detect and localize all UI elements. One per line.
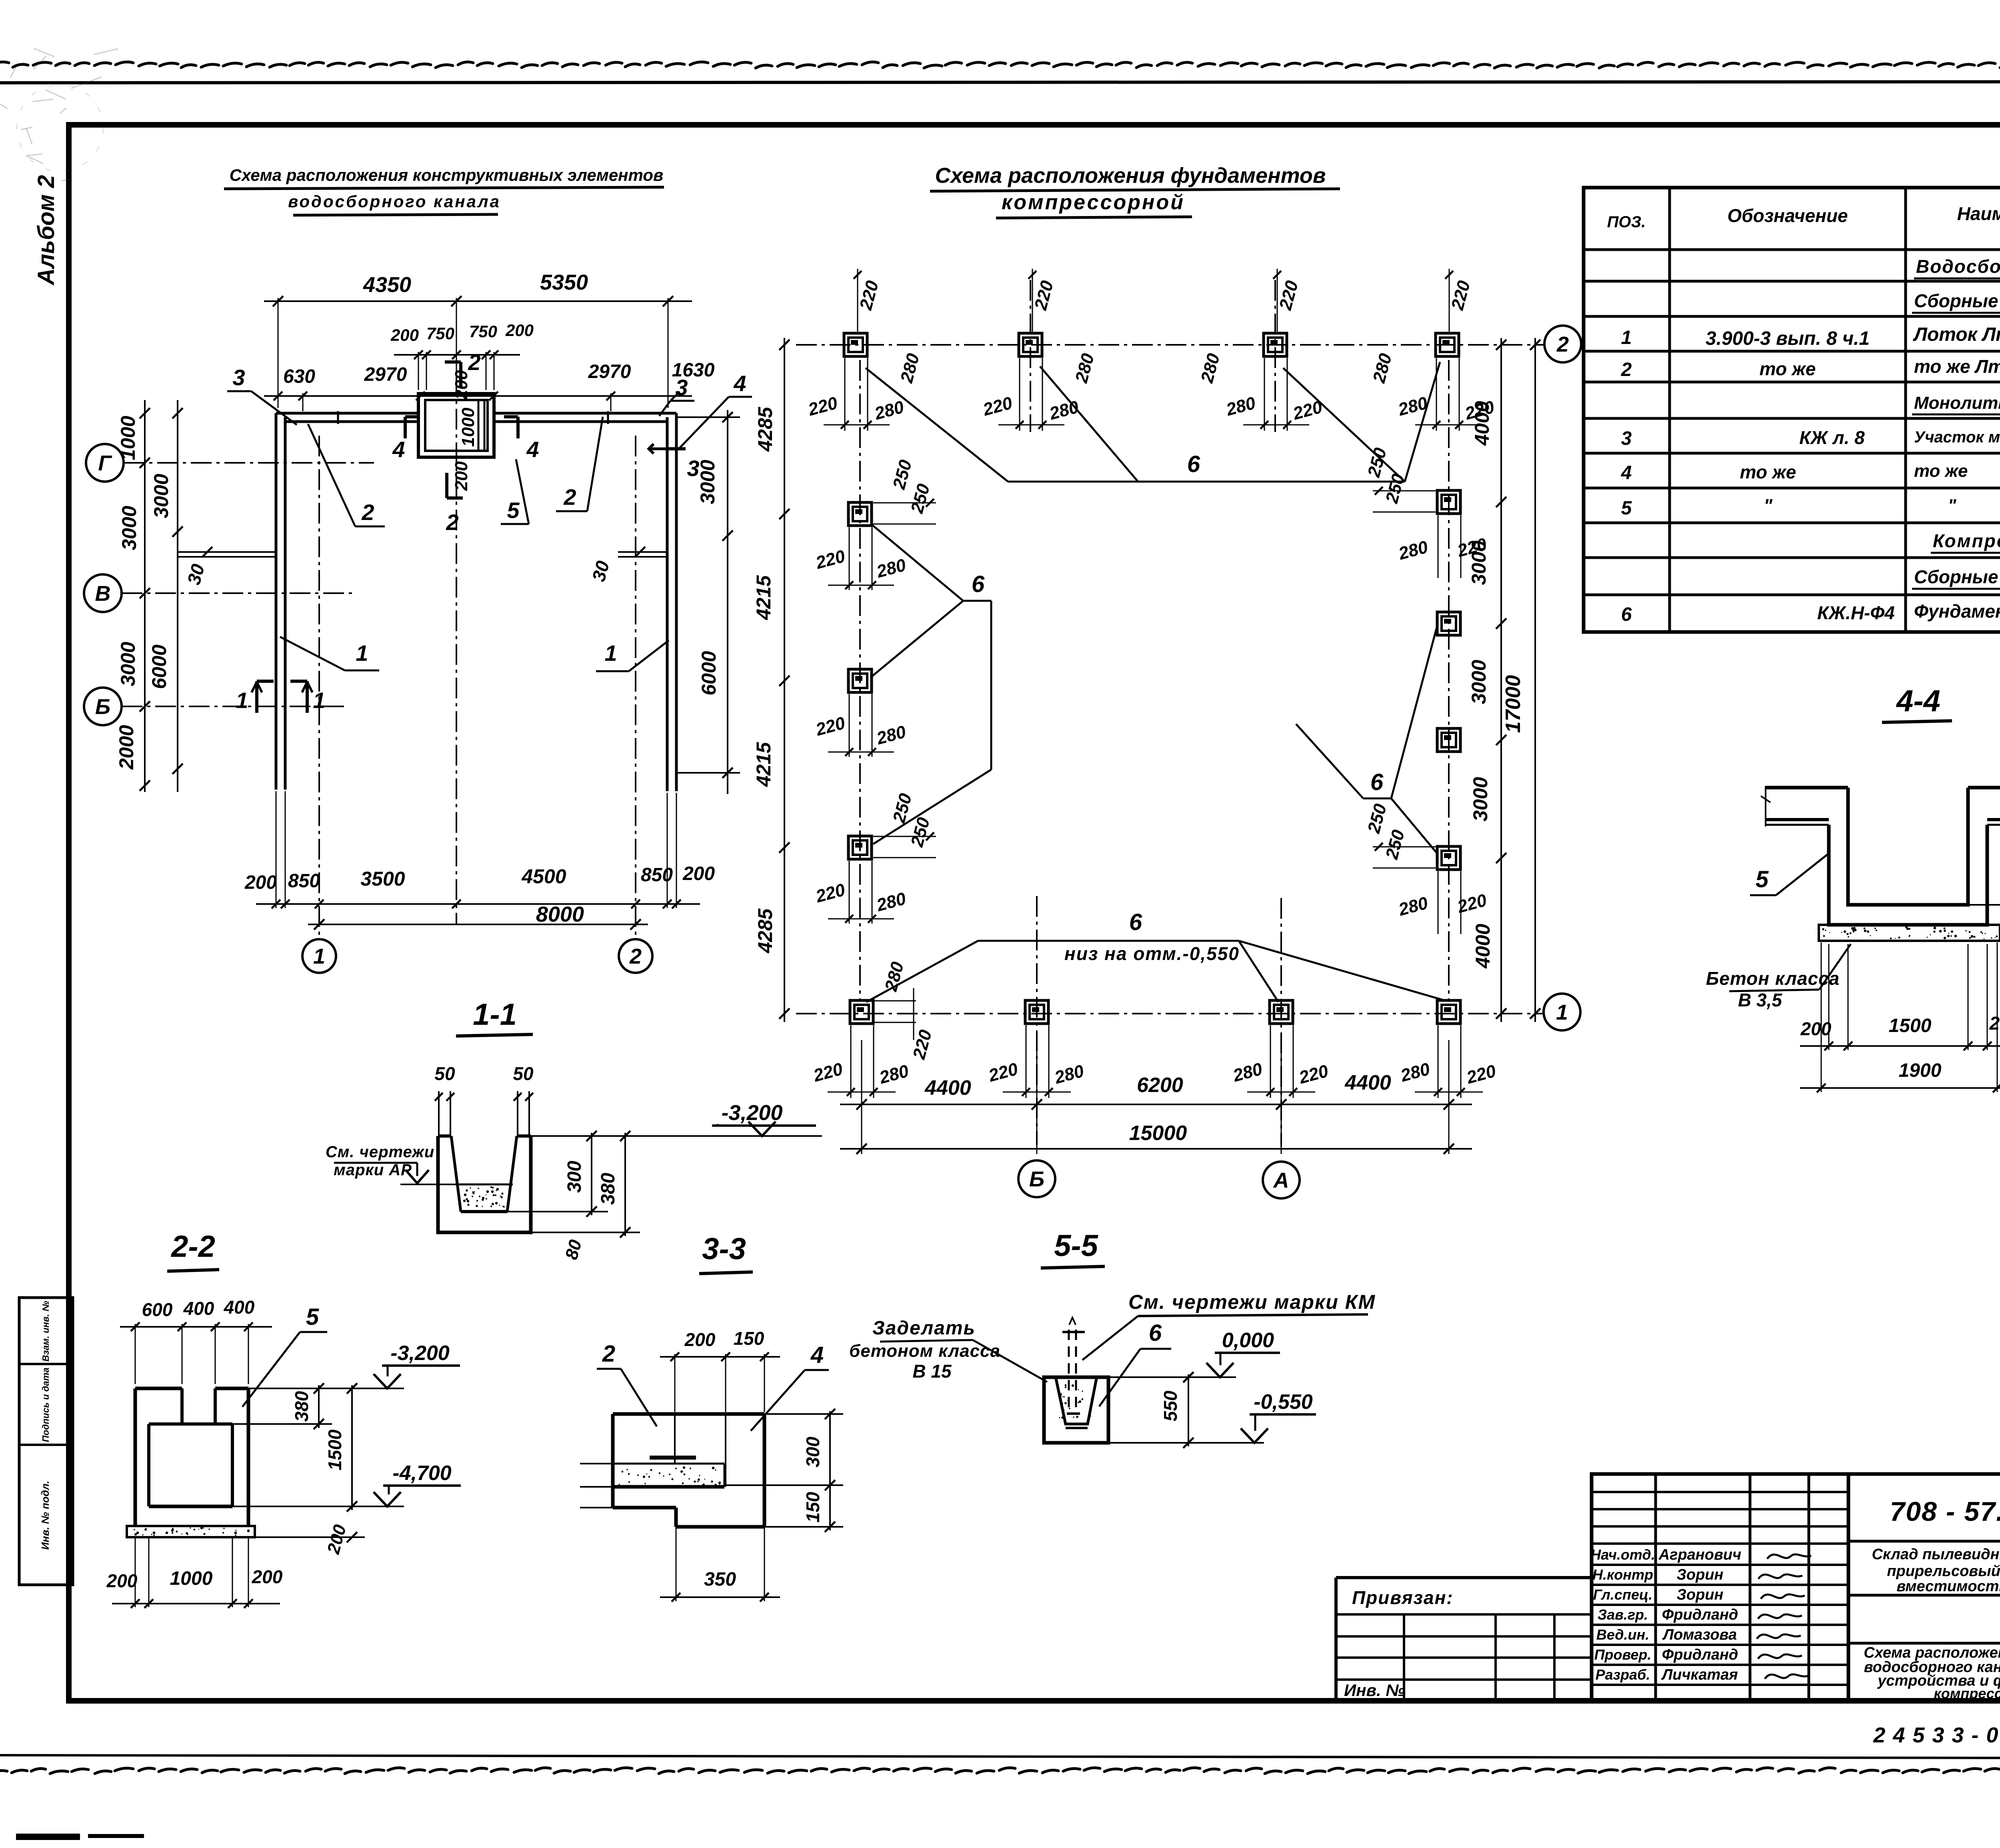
- svg-text:В 15: В 15: [912, 1361, 952, 1382]
- svg-text:3-3: 3-3: [702, 1232, 746, 1266]
- foundation Ф4 bottom row 3: [1270, 1000, 1293, 1024]
- svg-text:4400: 4400: [1344, 1071, 1391, 1094]
- svg-text:200: 200: [682, 863, 715, 884]
- svg-text:200: 200: [505, 321, 534, 340]
- 1-1 dim 50 left: [438, 1091, 440, 1136]
- foundation Ф4 bottom row 1: [850, 1000, 873, 1024]
- svg-text:Б: Б: [1029, 1167, 1044, 1191]
- svg-text:1-1: 1-1: [473, 998, 517, 1032]
- svg-text:Схема расположения фундаментов: Схема расположения фундаментов: [935, 164, 1326, 188]
- 4-4 bottom dim 200 1500 200: [1800, 1045, 2000, 1047]
- top dim 4350 / 5350: [264, 300, 692, 302]
- svg-text:прирельсовый силосного типа: прирельсовый силосного типа (мобильный): [1887, 1563, 2000, 1580]
- svg-text:1900: 1900: [1899, 1060, 1942, 1081]
- svg-text:Зорин: Зорин: [1676, 1566, 1723, 1583]
- svg-text:бетоном класса: бетоном класса: [849, 1341, 1000, 1361]
- left margin stamp table: [19, 1298, 73, 1585]
- svg-text:4-4: 4-4: [1896, 684, 1940, 718]
- svg-text:Г: Г: [98, 451, 112, 475]
- svg-text:3000: 3000: [117, 642, 139, 686]
- title block staff table: [1592, 1474, 1848, 1701]
- 1-1 dim 300: [591, 1133, 592, 1215]
- svg-text:-3,200: -3,200: [721, 1101, 782, 1125]
- svg-text:Привязан:: Привязан:: [1352, 1587, 1454, 1608]
- svg-text:2-2: 2-2: [170, 1230, 215, 1264]
- 3-3 right dims 300 150: [829, 1411, 831, 1530]
- axis А vertical: [1280, 898, 1282, 1146]
- section mark 4-4 right: [516, 417, 520, 438]
- 2-2 top dim 600 400 400: [120, 1326, 272, 1328]
- svg-text:1: 1: [313, 688, 325, 713]
- svg-text:708 - 57. 90: 708 - 57. 90: [1890, 1496, 2000, 1527]
- svg-text:3: 3: [687, 456, 699, 481]
- svg-text:2: 2: [602, 1341, 615, 1367]
- 2-2 footing band: [127, 1526, 255, 1537]
- svg-text:4: 4: [733, 371, 746, 396]
- right-of-square dims bottom-left square: [874, 1000, 916, 1002]
- svg-text:4: 4: [526, 437, 539, 462]
- svg-text:Гл.спец.: Гл.спец.: [1593, 1586, 1652, 1603]
- svg-text:350: 350: [704, 1569, 736, 1590]
- foundation Ф4 bottom row 4: [1437, 1000, 1460, 1024]
- foundation Ф4 top row 1: [844, 333, 867, 356]
- svg-text:3000: 3000: [1468, 540, 1490, 585]
- axis row 2: [796, 344, 1543, 346]
- svg-text:Водосборный канал: Водосборный канал: [1916, 256, 2000, 277]
- 4-4 left flange slab: [1766, 786, 1848, 790]
- svg-text:6: 6: [1187, 451, 1200, 477]
- svg-text:5: 5: [306, 1304, 319, 1330]
- svg-text:4285: 4285: [754, 406, 776, 452]
- svg-text:15000: 15000: [1129, 1122, 1187, 1145]
- svg-text:Участок монолитный Ум 1: Участок монолитный Ум 1: [1914, 428, 2000, 446]
- svg-text:Обозначение: Обозначение: [1727, 205, 1848, 226]
- svg-text:Личкатая: Личкатая: [1661, 1666, 1738, 1683]
- channel top wall left segment (elements 2,3): [276, 412, 418, 415]
- svg-text:Наименование: Наименование: [1957, 203, 2000, 224]
- box inner divider double line: [478, 400, 480, 451]
- svg-text:Нач.отд.: Нач.отд.: [1590, 1546, 1655, 1563]
- bottom dim 200 850 3500 4500 850 200: [256, 903, 700, 905]
- 2-2 bottom dim 200 1000 200: [112, 1603, 280, 1604]
- 3-3 inner verticals: [674, 1414, 676, 1464]
- foundation Ф4 right column 2: [1437, 612, 1460, 635]
- axis В: [122, 592, 352, 594]
- svg-text:150: 150: [802, 1492, 823, 1522]
- svg-text:6: 6: [1149, 1320, 1162, 1346]
- svg-text:Инв. №: Инв. №: [1344, 1681, 1405, 1700]
- 5-5 dim 550: [1188, 1374, 1189, 1446]
- svg-text:вместимостью 0,5 тыс. Т: вместимостью 0,5 тыс. Т: [1896, 1578, 2000, 1595]
- svg-text:Компрессорная: Компрессорная: [1933, 530, 2000, 551]
- левый блок привязан: [1336, 1576, 1592, 1579]
- svg-text:3.900-3 вып. 8 ч.1: 3.900-3 вып. 8 ч.1: [1706, 328, 1870, 349]
- svg-text:630: 630: [283, 366, 315, 387]
- plan centre line through box: [456, 375, 457, 924]
- svg-text:компрессорной: компрессорной: [1934, 1685, 2000, 1702]
- svg-text:1: 1: [236, 688, 248, 713]
- svg-text:200: 200: [106, 1570, 138, 1591]
- bottom thin trim line: [0, 1755, 2000, 1758]
- leader 6 top group: [1008, 481, 1405, 483]
- 1-1 dim 380: [624, 1133, 626, 1236]
- 30 offset mark left: [178, 551, 276, 553]
- section mark 4-4 left: [404, 417, 407, 438]
- 1-1 channel walls: [438, 1136, 531, 1232]
- svg-text:6000: 6000: [698, 651, 720, 695]
- svg-text:марки АР: марки АР: [334, 1161, 412, 1179]
- svg-text:380: 380: [291, 1391, 312, 1422]
- svg-text:0,000: 0,000: [1222, 1329, 1274, 1352]
- svg-text:Бетон класса: Бетон класса: [1706, 968, 1840, 989]
- svg-text:2970: 2970: [588, 361, 631, 382]
- svg-text:Ломазова: Ломазова: [1662, 1626, 1737, 1643]
- svg-text:Заделать: Заделать: [872, 1318, 976, 1339]
- 2-2 extension lines below: [135, 1537, 136, 1607]
- svg-text:КЖ.Н-Ф4: КЖ.Н-Ф4: [1817, 602, 1895, 623]
- svg-text:2: 2: [1556, 332, 1569, 356]
- svg-text:то же: то же: [1740, 462, 1796, 482]
- dim 200 750 750 200 over box: [394, 354, 520, 356]
- axis Б: [122, 706, 346, 707]
- local dims at top row squares: [844, 358, 846, 431]
- 1-1 level -3.200: [531, 1135, 822, 1137]
- svg-text:Фундамент Ф4: Фундамент Ф4: [1914, 601, 2000, 622]
- foundation Ф4 left column 2: [848, 669, 872, 692]
- joint tick on top wall right: [607, 411, 609, 424]
- svg-text:1: 1: [1556, 1000, 1568, 1024]
- svg-text:5: 5: [1756, 866, 1769, 892]
- svg-text:380: 380: [598, 1173, 619, 1205]
- bottom-left paper artifacts: [16, 1834, 80, 1840]
- svg-text:50: 50: [434, 1063, 455, 1084]
- axis Б vertical: [1036, 896, 1038, 1145]
- svg-text:1500: 1500: [1889, 1015, 1932, 1036]
- channel right wall (element 1): [666, 417, 669, 791]
- svg-text:200: 200: [252, 1566, 283, 1587]
- box inner: [425, 400, 488, 451]
- svg-text:3000: 3000: [1468, 660, 1490, 704]
- svg-text:Фридланд: Фридланд: [1662, 1606, 1738, 1623]
- 2-2 dim 200 vert: [347, 1532, 357, 1542]
- svg-text:компрессорной: компрессорной: [1002, 191, 1185, 214]
- svg-text:6: 6: [1129, 909, 1142, 935]
- svg-text:В: В: [95, 582, 111, 606]
- svg-text:Н.контр: Н.контр: [1592, 1566, 1653, 1583]
- svg-text:200: 200: [452, 461, 471, 491]
- svg-text:4350: 4350: [363, 273, 411, 297]
- 4-4 right flange slab: [1968, 786, 2000, 790]
- svg-text:3: 3: [232, 365, 245, 390]
- svg-text:200: 200: [1800, 1018, 1832, 1039]
- svg-text:6: 6: [1370, 769, 1384, 795]
- svg-text:8000: 8000: [536, 902, 584, 926]
- svg-text:3000: 3000: [696, 460, 719, 504]
- axis Г: [124, 462, 374, 464]
- svg-text:Сборные ж.б.элементы: Сборные ж.б.элементы: [1914, 566, 2000, 587]
- svg-text:Альбом 2: Альбом 2: [33, 175, 59, 286]
- svg-text:6200: 6200: [1137, 1074, 1183, 1097]
- svg-text:5350: 5350: [540, 270, 588, 294]
- middle plan right inner dim 4000/3000x3/4000: [1500, 338, 1502, 1022]
- 3-3 thin continuation lines left: [580, 1463, 613, 1464]
- left outer dim line (1000/3000/3000/2000): [144, 400, 146, 792]
- 2-2 body outline: [135, 1387, 182, 1390]
- specification table: [1584, 188, 2000, 632]
- 1-1 dim 50 right: [517, 1091, 518, 1136]
- 5-5 anchor bolt: [1068, 1330, 1070, 1412]
- foundation Ф4 left column 3: [848, 836, 872, 859]
- foundation Ф4 bottom row 2: [1025, 1000, 1048, 1024]
- svg-text:См. чертежи: См. чертежи: [326, 1143, 434, 1161]
- svg-text:1000: 1000: [117, 416, 139, 460]
- svg-text:Б: Б: [95, 695, 110, 719]
- svg-text:": ": [1764, 495, 1773, 516]
- svg-text:-3,200: -3,200: [390, 1342, 450, 1365]
- svg-text:400: 400: [224, 1297, 255, 1318]
- left inner dim line (3000/6000): [177, 400, 178, 792]
- svg-text:Агранович: Агранович: [1658, 1546, 1742, 1563]
- svg-text:2 4 5 3 3 - 0 2: 2 4 5 3 3 - 0 2: [1873, 1723, 2000, 1747]
- foundation Ф4 top row 4: [1436, 333, 1459, 356]
- svg-text:ПОЗ.: ПОЗ.: [1607, 213, 1646, 231]
- svg-text:4: 4: [1621, 462, 1632, 484]
- 5-5 level 0.000: [1108, 1376, 1236, 1378]
- svg-text:200: 200: [684, 1329, 716, 1350]
- svg-text:Вед.ин.: Вед.ин.: [1596, 1626, 1649, 1643]
- foundation Ф4 right column 4: [1437, 846, 1460, 870]
- 5-5 trough inner: [1056, 1379, 1096, 1424]
- svg-text:850: 850: [288, 870, 320, 892]
- 5-5 trough outer: [1044, 1377, 1108, 1443]
- svg-text:2: 2: [1621, 359, 1632, 380]
- svg-text:Провер.: Провер.: [1594, 1646, 1652, 1663]
- monolithic box Ум3 (element 5) outer: [418, 394, 494, 457]
- svg-text:6000: 6000: [148, 644, 170, 689]
- 30 offset mark right: [618, 551, 667, 553]
- channel top wall right segment (elements 2,4): [494, 412, 676, 415]
- 2-2 dim 380: [318, 1385, 320, 1428]
- svg-text:Склад пылевидных строительных: Склад пылевидных строительных материалов: [1872, 1546, 2000, 1563]
- axis row 1: [796, 1013, 1542, 1014]
- svg-text:1000: 1000: [458, 408, 478, 447]
- svg-text:4: 4: [392, 437, 405, 462]
- 4-4 bottom dim 1900: [1800, 1087, 2000, 1089]
- svg-text:3: 3: [675, 375, 688, 400]
- bottom dims 4400 6200 4400: [840, 1104, 1472, 1105]
- svg-text:то же: то же: [1914, 461, 1968, 481]
- svg-text:Зав.гр.: Зав.гр.: [1598, 1606, 1648, 1623]
- svg-text:6: 6: [1621, 604, 1632, 625]
- top perforation scallop line: [0, 62, 9, 65]
- svg-text:Разраб.: Разраб.: [1596, 1666, 1650, 1683]
- svg-text:750: 750: [426, 324, 454, 343]
- svg-text:200: 200: [452, 370, 471, 400]
- svg-text:1500: 1500: [324, 1429, 345, 1470]
- 4-4 footing stipple band: [1819, 925, 2000, 941]
- svg-text:5: 5: [507, 498, 520, 523]
- svg-text:4500: 4500: [521, 865, 566, 888]
- foundation Ф4 top row 2: [1019, 333, 1042, 356]
- 3-3 block outline: [613, 1412, 764, 1416]
- svg-text:Схема расположения конструктив: Схема расположения конструктивных элемен…: [230, 166, 664, 184]
- 2-2 level -3.200: [248, 1388, 404, 1389]
- 5-5 level -0.550: [1108, 1442, 1264, 1444]
- svg-text:Монолитные ж.б.элементы: Монолитные ж.б.элементы: [1914, 393, 2000, 413]
- svg-text:Взам. инв. №: Взам. инв. №: [40, 1301, 51, 1362]
- svg-text:3500: 3500: [360, 868, 405, 890]
- section marks 1-1 in plan: [255, 681, 258, 713]
- svg-text:водосборного канала: водосборного канала: [288, 192, 501, 211]
- svg-text:См. чертежи марки КМ: См. чертежи марки КМ: [1128, 1291, 1376, 1313]
- section mark 3-3 right wall: [666, 447, 686, 450]
- svg-text:200: 200: [244, 872, 277, 893]
- bottom dim 15000: [840, 1148, 1472, 1150]
- section mark 2-2 bottom: [445, 473, 448, 498]
- svg-text:то же Лт 1а-3-2: то же Лт 1а-3-2: [1914, 356, 2000, 377]
- svg-text:1: 1: [313, 944, 325, 968]
- svg-text:50: 50: [513, 1063, 534, 1084]
- axis 2 vertical: [635, 436, 636, 939]
- foundation Ф4 right column 3: [1437, 728, 1460, 752]
- axis 1 vertical: [318, 436, 320, 939]
- 4-4 channel walls and bottom: [1829, 825, 1987, 925]
- svg-text:4215: 4215: [752, 575, 775, 620]
- top trim line: [0, 82, 2000, 83]
- 2-2 dim 1500: [351, 1385, 353, 1510]
- foundation Ф4 top row 3: [1264, 333, 1287, 356]
- 3-3 rebar mark: [650, 1456, 696, 1460]
- right dim line of left plan (3000/6000): [727, 410, 728, 794]
- svg-text:300: 300: [564, 1161, 585, 1193]
- svg-text:300: 300: [802, 1436, 823, 1467]
- svg-text:550: 550: [1160, 1390, 1181, 1421]
- svg-text:Лоток Лт 1-3-2: Лоток Лт 1-3-2: [1913, 324, 2000, 345]
- svg-text:850: 850: [641, 864, 673, 886]
- svg-text:4000: 4000: [1472, 924, 1494, 968]
- 4-4 level -4.700: [1968, 904, 2000, 906]
- svg-text:": ": [1948, 496, 1957, 515]
- svg-text:Зорин: Зорин: [1676, 1586, 1723, 1603]
- svg-text:4215: 4215: [752, 742, 775, 787]
- dim 630 2970 ... 2970 1630: [264, 395, 692, 397]
- svg-text:5-5: 5-5: [1054, 1229, 1099, 1263]
- svg-text:2000: 2000: [115, 725, 138, 770]
- svg-text:2: 2: [629, 944, 642, 968]
- svg-text:5: 5: [1621, 498, 1632, 519]
- 3-3 top dim 200 150: [660, 1356, 780, 1358]
- 1-1 concrete fill: [455, 1184, 513, 1186]
- svg-text:2970: 2970: [364, 364, 407, 385]
- svg-text:1: 1: [604, 640, 617, 666]
- svg-text:750: 750: [469, 322, 497, 341]
- leader 6 bottom group + низ на отм: [978, 940, 1239, 942]
- title block right box: [1848, 1474, 2000, 1701]
- foundation Ф4 right column 1: [1437, 490, 1460, 514]
- svg-text:КЖ л. 8: КЖ л. 8: [1799, 427, 1865, 448]
- svg-text:400: 400: [183, 1298, 214, 1319]
- svg-text:6: 6: [972, 571, 985, 597]
- top-left corner stamp smudge: [34, 56, 46, 69]
- svg-text:Сборные ж.б. элементы: Сборные ж.б. элементы: [1914, 290, 2000, 311]
- svg-text:2: 2: [446, 510, 458, 535]
- svg-text:Инв. № подл.: Инв. № подл.: [39, 1481, 51, 1550]
- bottom dim 8000: [308, 924, 648, 925]
- svg-text:17000: 17000: [1502, 675, 1525, 733]
- svg-text:3000: 3000: [150, 474, 172, 518]
- svg-text:200: 200: [1989, 1013, 2000, 1034]
- column axis lines through side squares: [859, 360, 861, 1000]
- sheet name lines: [1848, 1642, 2000, 1645]
- foundation Ф4 left column 1: [848, 502, 872, 526]
- channel left wall (element 1): [275, 413, 278, 790]
- svg-text:Фридланд: Фридланд: [1662, 1646, 1738, 1663]
- svg-text:В 3,5: В 3,5: [1738, 990, 1782, 1010]
- centre stubs above top middle squares: [1030, 280, 1031, 432]
- 3-3 bottom dim 350: [660, 1596, 780, 1598]
- middle plan left dim line 4285/4215/4215/4285: [784, 338, 785, 1022]
- 4-4 dim 380: [1987, 819, 2000, 820]
- svg-text:1: 1: [1621, 327, 1632, 348]
- middle plan right outer dim 17000: [1534, 338, 1536, 1022]
- svg-text:150: 150: [734, 1328, 764, 1349]
- svg-text:200: 200: [390, 326, 419, 344]
- svg-text:600: 600: [142, 1299, 173, 1320]
- svg-text:А: А: [1273, 1168, 1289, 1192]
- svg-text:3000: 3000: [1469, 777, 1492, 821]
- svg-text:3000: 3000: [118, 506, 140, 550]
- svg-text:низ на отм.-0,550: низ на отм.-0,550: [1064, 943, 1240, 964]
- svg-text:4400: 4400: [924, 1076, 971, 1100]
- svg-text:3: 3: [1621, 428, 1632, 449]
- svg-text:то же: то же: [1760, 358, 1816, 379]
- svg-text:1000: 1000: [170, 1568, 213, 1589]
- svg-text:2: 2: [361, 500, 374, 525]
- svg-text:1: 1: [356, 640, 368, 666]
- svg-text:4285: 4285: [754, 908, 776, 953]
- svg-text:2: 2: [563, 484, 576, 510]
- bottom perforation scallop line: [0, 1770, 7, 1773]
- svg-text:-0,550: -0,550: [1254, 1390, 1313, 1414]
- joint tick on top wall left: [337, 411, 339, 424]
- section mark 2-2 top: [445, 360, 461, 364]
- svg-text:4: 4: [810, 1342, 824, 1368]
- svg-text:Подпись и дата: Подпись и дата: [40, 1368, 51, 1442]
- 2-2 level -4.700: [232, 1506, 404, 1507]
- svg-text:-4,700: -4,700: [392, 1462, 452, 1485]
- svg-text:4000: 4000: [1471, 401, 1493, 446]
- 1-1 inner cavity: [451, 1136, 461, 1212]
- 3-3 channel fill band: [613, 1463, 724, 1465]
